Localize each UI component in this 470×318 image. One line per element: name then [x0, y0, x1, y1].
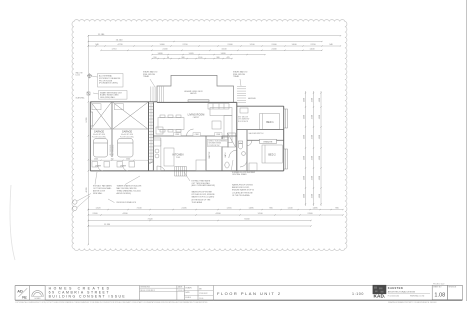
annotation extract fan kitchen — [184, 172, 215, 187]
svg-text:4.300: 4.300 — [122, 213, 128, 215]
svg-text:2.000: 2.000 — [271, 44, 277, 46]
svg-text:2.000: 2.000 — [303, 135, 305, 139]
svg-text:8.240: 8.240 — [244, 219, 250, 221]
annotation extract fan left — [93, 172, 112, 195]
annotation wall tie — [76, 72, 83, 77]
svg-text:3.600: 3.600 — [311, 156, 313, 160]
svg-text:4.180: 4.180 — [319, 156, 321, 160]
svg-text:BUILDING CONSENT ISSUE: BUILDING CONSENT ISSUE — [49, 295, 127, 299]
svg-text:TILES: TILES — [176, 157, 180, 159]
kitchen bench — [153, 138, 206, 171]
dimension labels — [86, 34, 339, 226]
svg-text:2.000: 2.000 — [303, 156, 305, 160]
svg-text:3.100: 3.100 — [221, 48, 227, 50]
svg-text:11.180: 11.180 — [104, 224, 111, 226]
svg-text:1.400: 1.400 — [291, 44, 297, 46]
svg-text:4.180: 4.180 — [319, 115, 321, 119]
svg-text:2.340: 2.340 — [307, 213, 313, 215]
leader circles left — [73, 194, 91, 211]
svg-text:2.340: 2.340 — [126, 158, 130, 160]
deck stair right — [237, 87, 246, 103]
svg-text:FLOOR 100 CONC: FLOOR 100 CONC — [92, 136, 107, 138]
svg-text:10.100: 10.100 — [116, 40, 123, 42]
deck outline — [157, 75, 234, 102]
annotation handrail — [248, 97, 256, 100]
svg-text:2.190: 2.190 — [182, 44, 188, 46]
bath fixtures — [223, 137, 253, 168]
svg-text:1.08: 1.08 — [434, 292, 445, 298]
rotated shelf text garage divider — [109, 144, 114, 156]
svg-text:3.600: 3.600 — [311, 135, 313, 139]
svg-text:GARAGE: GARAGE — [94, 130, 105, 133]
wall label boxes — [174, 133, 223, 136]
svg-text:1.100: 1.100 — [198, 57, 203, 59]
svg-text:1.060: 1.060 — [159, 44, 165, 46]
bed 2 — [249, 145, 282, 171]
exterior walls — [90, 102, 283, 171]
annotation waterproof kitchen — [192, 191, 216, 204]
svg-text:2.000: 2.000 — [303, 98, 305, 102]
svg-text:2.000: 2.000 — [227, 44, 233, 46]
internal staircase treads — [149, 104, 153, 164]
dimension lines group — [88, 36, 343, 245]
KAESTEN text — [388, 286, 430, 297]
room label ENSUITE boxed — [260, 139, 277, 143]
svg-text:7.100: 7.100 — [136, 208, 142, 210]
svg-text:1.485: 1.485 — [312, 208, 318, 210]
svg-text:GARAGE: GARAGE — [122, 130, 133, 133]
svg-text:REVISIONS: REVISIONS — [141, 287, 151, 289]
svg-text:3.600: 3.600 — [311, 176, 313, 180]
svg-text:2.190: 2.190 — [310, 44, 316, 46]
annotation stairs right — [233, 71, 247, 87]
svg-text:4.730: 4.730 — [117, 44, 123, 46]
svg-text:L'DRY: L'DRY — [120, 166, 127, 168]
svg-text:4.300: 4.300 — [215, 213, 221, 215]
svg-text:1.480: 1.480 — [157, 53, 163, 55]
svg-text:CS02: CS02 — [195, 134, 199, 136]
svg-text:AD: AD — [17, 289, 23, 293]
room label LIVING ROOM — [188, 113, 205, 119]
living furniture — [156, 104, 232, 143]
svg-text:1.710: 1.710 — [111, 48, 117, 50]
svg-text:6.0x6.0 INT GRG: 6.0x6.0 INT GRG — [93, 134, 106, 136]
revision box — [448, 285, 463, 299]
svg-text:6.000: 6.000 — [86, 118, 88, 123]
svg-text:470: 470 — [227, 57, 230, 59]
svg-text:7.100: 7.100 — [147, 219, 153, 221]
door arcs — [149, 129, 194, 171]
laundry appliances — [92, 162, 135, 171]
svg-text:KAD.: KAD. — [373, 294, 385, 299]
svg-text:4.180: 4.180 — [319, 194, 321, 198]
svg-text:BLDG CONS RFI 2: BLDG CONS RFI 2 — [141, 290, 156, 292]
svg-text:980: 980 — [217, 57, 220, 59]
light symbol — [87, 73, 92, 78]
svg-text:4.180: 4.180 — [319, 176, 321, 180]
svg-text:100: 100 — [111, 158, 114, 160]
svg-text:1.020: 1.020 — [188, 53, 194, 55]
svg-text:1:100: 1:100 — [352, 292, 364, 296]
svg-text:2.000: 2.000 — [303, 115, 305, 119]
cars — [94, 139, 134, 158]
svg-text:SHEET NO: SHEET NO — [433, 287, 442, 289]
svg-text:FLOOR 100 CONC: FLOOR 100 CONC — [120, 136, 135, 138]
meter symbol — [87, 92, 90, 95]
svg-text:1.480: 1.480 — [220, 53, 226, 55]
room label GARAGE right — [120, 130, 135, 138]
svg-text:12.01.23: 12.01.23 — [178, 290, 185, 292]
logo ADNZ — [15, 286, 30, 300]
svg-text:L'DRY: L'DRY — [95, 166, 102, 168]
garage cross braces — [91, 102, 148, 129]
garage internal dim row — [90, 159, 148, 161]
deck stair left — [151, 87, 164, 103]
svg-text:RECESS HYDRAULICS: RECESS HYDRAULICS — [117, 201, 137, 204]
interior walls — [112, 102, 284, 171]
scalloped sheet border — [72, 20, 347, 251]
annotation stairs left — [143, 71, 157, 88]
disclaimer strip — [15, 301, 437, 304]
bed 1 — [240, 108, 280, 129]
dimension ticks — [88, 35, 344, 245]
svg-text:SCALE: SCALE — [185, 296, 191, 299]
svg-text:4.180: 4.180 — [319, 135, 321, 139]
annotation dressing box — [208, 139, 228, 147]
annotation waterproof bathroom — [232, 184, 255, 197]
svg-text:KITCHEN: KITCHEN — [173, 154, 184, 157]
room label BED 1 — [266, 121, 274, 124]
svg-text:BATH: BATH — [224, 152, 227, 157]
svg-text:BED 1: BED 1 — [266, 121, 274, 124]
drawn date scale cells — [184, 290, 213, 295]
svg-text:CS03: CS03 — [216, 134, 220, 136]
annotation higher deck — [184, 91, 203, 95]
client text — [49, 286, 127, 298]
room label GARAGE left — [92, 130, 107, 138]
room label BED 2 — [268, 153, 276, 156]
sheet number box — [432, 284, 447, 300]
svg-text:HOMES: HOMES — [35, 298, 41, 300]
svg-text:2.340: 2.340 — [92, 213, 98, 215]
svg-text:2.000: 2.000 — [271, 48, 277, 50]
annotation bed1 door note — [238, 117, 250, 123]
svg-text:4.300: 4.300 — [86, 188, 88, 193]
svg-text:FLOOR PLAN UNIT 2: FLOOR PLAN UNIT 2 — [217, 291, 282, 296]
svg-text:11.180: 11.180 — [98, 34, 105, 36]
room label LDRY x2 — [95, 166, 127, 168]
label HALOGEN SWITCH — [249, 132, 264, 135]
room label PANTRY rotated — [208, 151, 211, 159]
svg-text:1.100: 1.100 — [249, 44, 255, 46]
svg-text:PROJECT 2022: PROJECT 2022 — [433, 284, 445, 286]
svg-text:1.520: 1.520 — [95, 208, 101, 210]
entry steps bottom — [175, 167, 187, 177]
svg-text:BED 2: BED 2 — [268, 153, 276, 156]
svg-text:1:100: 1:100 — [199, 298, 203, 300]
svg-text:2.000: 2.000 — [303, 176, 305, 180]
garage shelves — [92, 104, 124, 110]
svg-text:2.000: 2.000 — [162, 48, 168, 50]
svg-text:REVISION: REVISION — [449, 287, 457, 289]
svg-text:KAESTEN: KAESTEN — [388, 286, 403, 290]
ensuite fixtures — [228, 133, 248, 167]
svg-text:WWW.KAD.CO.NZ: WWW.KAD.CO.NZ — [410, 294, 424, 297]
svg-text:ARCHITECTURAL DESIGN: ARCHITECTURAL DESIGN — [388, 290, 416, 293]
svg-text:4.180: 4.180 — [319, 98, 321, 102]
svg-text:1.485: 1.485 — [248, 208, 254, 210]
annotation external fixtures box — [92, 74, 124, 88]
room label KITCHEN — [173, 154, 184, 160]
svg-text:DRAWN: DRAWN — [185, 286, 192, 289]
page right edge line — [466, 0, 468, 301]
svg-text:3.600: 3.600 — [311, 194, 313, 198]
KAD logo box — [373, 285, 387, 299]
svg-text:910: 910 — [154, 57, 157, 59]
logo arch — [30, 286, 45, 300]
room label BATHROOM rotated — [224, 152, 227, 157]
svg-text:ABOVE: ABOVE — [190, 92, 197, 95]
svg-text:17/01/2022: 17/01/2022 — [199, 293, 208, 295]
svg-text:3.600: 3.600 — [311, 98, 313, 102]
annotation recess hydraulics — [108, 199, 137, 204]
svg-text:1.555: 1.555 — [226, 208, 232, 210]
svg-text:2.000: 2.000 — [303, 194, 305, 198]
revisions box — [140, 288, 185, 291]
svg-text:6.0x6.0 INT GRG: 6.0x6.0 INT GRG — [121, 134, 134, 136]
svg-text:LIVING ROOM: LIVING ROOM — [188, 113, 205, 116]
svg-text:1.400: 1.400 — [309, 48, 315, 50]
svg-text:Nz: Nz — [22, 295, 27, 299]
svg-text:1.100: 1.100 — [257, 213, 263, 215]
svg-text:P. 04 555 1234: P. 04 555 1234 — [388, 295, 399, 297]
window bands — [90, 100, 287, 169]
annotation guardrail — [75, 97, 84, 100]
svg-text:90: 90 — [167, 57, 169, 59]
annotation timber stairs — [117, 176, 142, 195]
svg-text:ENSUITE: ENSUITE — [264, 141, 273, 143]
svg-text:2.340: 2.340 — [94, 158, 98, 160]
svg-text:2.005: 2.005 — [181, 208, 187, 210]
annotation formed floor shower — [231, 160, 256, 176]
svg-text:CS01: CS01 — [175, 134, 179, 136]
svg-text:980: 980 — [182, 57, 185, 59]
title block frame — [15, 286, 462, 301]
svg-text:1.100: 1.100 — [287, 208, 293, 210]
annotation smart meter box — [93, 91, 127, 100]
page left edge shadow — [10, 185, 15, 260]
svg-text:PANTRY: PANTRY — [208, 151, 211, 159]
svg-text:3.600: 3.600 — [311, 115, 313, 119]
